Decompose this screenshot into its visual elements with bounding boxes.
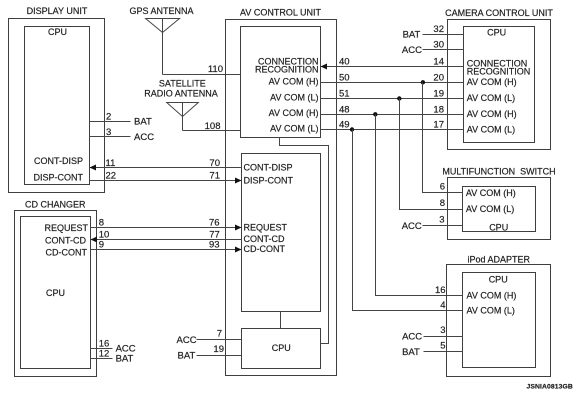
- svg-text:ACC: ACC: [177, 335, 197, 346]
- svg-text:AV COM (L): AV COM (L): [467, 93, 515, 103]
- svg-text:4: 4: [440, 300, 445, 311]
- camera CPU box: [464, 27, 535, 143]
- svg-text:AV COM (L): AV COM (L): [467, 125, 515, 135]
- svg-text:AV COM (H): AV COM (H): [269, 76, 319, 86]
- svg-text:BAT: BAT: [116, 353, 134, 364]
- wire GPS pin 110: [163, 64, 241, 75]
- svg-text:ACC: ACC: [134, 132, 154, 143]
- svg-text:RECOGNITION: RECOGNITION: [467, 66, 531, 76]
- svg-text:SATELLITE: SATELLITE: [159, 79, 206, 89]
- svg-text:DISP-CONT: DISP-CONT: [34, 173, 84, 183]
- svg-text:RECOGNITION: RECOGNITION: [255, 65, 319, 75]
- satellite radio antenna: [144, 79, 218, 131]
- wire 40 to 14: [321, 57, 464, 70]
- svg-text:76: 76: [209, 218, 220, 229]
- wire AV COM H 50 to 20: [321, 72, 464, 83]
- svg-text:110: 110: [208, 64, 223, 75]
- junction dot on 48: [373, 112, 377, 116]
- svg-text:AV COM (L): AV COM (L): [270, 123, 318, 133]
- svg-text:3: 3: [439, 214, 444, 225]
- svg-text:20: 20: [433, 72, 444, 83]
- svg-text:6: 6: [440, 182, 445, 193]
- svg-text:JSNIA0813GB: JSNIA0813GB: [527, 384, 573, 391]
- svg-text:40: 40: [339, 57, 350, 68]
- svg-text:22: 22: [106, 171, 117, 182]
- wire DISP-CONT pin 22 to 71: [90, 171, 242, 184]
- iPod CPU box: [463, 273, 536, 368]
- svg-text:12: 12: [99, 348, 110, 359]
- svg-text:19: 19: [213, 344, 224, 355]
- svg-text:CD-CONT: CD-CONT: [46, 247, 88, 257]
- svg-text:CONT-DISP: CONT-DISP: [34, 156, 83, 166]
- svg-text:3: 3: [106, 127, 111, 138]
- svg-text:2: 2: [106, 111, 111, 122]
- junction dot on 51: [397, 96, 401, 100]
- svg-text:BAT: BAT: [134, 117, 152, 128]
- svg-text:3: 3: [440, 325, 445, 336]
- wire REQUEST pin 8 to 76: [91, 218, 242, 231]
- svg-text:CD-CONT: CD-CONT: [244, 244, 286, 254]
- svg-text:17: 17: [433, 120, 444, 131]
- wire camera BAT pin 32: [403, 24, 464, 41]
- svg-text:7: 7: [217, 328, 222, 339]
- svg-text:MULTIFUNCTION SWITCH: MULTIFUNCTION SWITCH: [442, 166, 555, 176]
- svg-text:93: 93: [209, 239, 220, 250]
- svg-text:30: 30: [433, 40, 444, 51]
- svg-text:DISPLAY UNIT: DISPLAY UNIT: [27, 6, 88, 16]
- svg-text:8: 8: [99, 218, 104, 229]
- wire iPod BAT pin 5: [402, 340, 462, 358]
- svg-text:CPU: CPU: [48, 27, 67, 37]
- svg-text:AV COM (H): AV COM (H): [269, 108, 319, 118]
- wire 49 to iPod 4: [353, 130, 463, 312]
- svg-text:CPU: CPU: [489, 222, 508, 232]
- svg-text:GPS ANTENNA: GPS ANTENNA: [129, 6, 193, 16]
- wire 50 to multifunction 6: [423, 83, 463, 193]
- wire CONT-DISP pin 11 to 70: [90, 158, 242, 171]
- svg-text:iPod ADAPTER: iPod ADAPTER: [468, 254, 531, 264]
- wire AV COM H 48 to 18: [321, 104, 464, 115]
- svg-text:BAT: BAT: [178, 351, 196, 362]
- svg-text:108: 108: [205, 121, 221, 132]
- svg-text:DISP-CONT: DISP-CONT: [244, 176, 294, 186]
- svg-text:CONT-CD: CONT-CD: [244, 234, 285, 244]
- svg-text:51: 51: [339, 89, 350, 100]
- svg-text:CPU: CPU: [489, 274, 508, 284]
- svg-text:49: 49: [339, 120, 350, 131]
- svg-text:5: 5: [440, 340, 445, 351]
- wire CD ACC pin 16: [91, 339, 136, 355]
- wire AV ACC pin 7: [177, 328, 242, 346]
- svg-text:AV COM (H): AV COM (H): [467, 109, 517, 119]
- wire 48 to iPod 16: [376, 115, 463, 297]
- wire CD-CONT pin 9 to 93: [91, 239, 242, 252]
- svg-text:71: 71: [209, 171, 220, 182]
- wire ACC pin 3: [90, 127, 155, 143]
- svg-text:CONT-DISP: CONT-DISP: [244, 163, 293, 173]
- wire 51 to multifunction 8: [400, 99, 463, 210]
- multifunction switch outer box: [448, 178, 551, 240]
- wire iPod ACC pin 3: [402, 325, 462, 343]
- wire AV COM L 49 to 17: [321, 120, 464, 131]
- wire satellite pin 108: [183, 121, 241, 132]
- svg-text:AV COM (H): AV COM (H): [466, 188, 516, 198]
- wire BAT pin 2: [90, 111, 152, 127]
- svg-text:ACC: ACC: [402, 332, 422, 343]
- svg-text:ACC: ACC: [402, 45, 422, 56]
- AV CPU box: [242, 329, 321, 369]
- svg-text:ACC: ACC: [402, 221, 422, 232]
- CD changer CPU box: [21, 217, 91, 369]
- wire camera ACC pin 30: [402, 40, 464, 57]
- svg-text:AV COM (L): AV COM (L): [467, 305, 515, 315]
- wire AV BAT pin 19: [178, 344, 242, 362]
- svg-text:70: 70: [209, 158, 220, 169]
- svg-text:AV CONTROL UNIT: AV CONTROL UNIT: [240, 7, 322, 17]
- wire interface box to CPU: [280, 312, 282, 329]
- svg-text:AV COM (H): AV COM (H): [467, 290, 517, 300]
- wire CONT-CD pin 10 to 77: [91, 229, 242, 242]
- svg-text:REQUEST: REQUEST: [44, 223, 88, 233]
- svg-text:CPU: CPU: [487, 28, 506, 38]
- wire multifunction ACC pin 3: [402, 214, 463, 232]
- svg-text:50: 50: [339, 72, 350, 83]
- iPod adapter outer box: [447, 265, 551, 377]
- svg-text:8: 8: [440, 198, 445, 209]
- svg-text:16: 16: [435, 285, 446, 296]
- AV control unit outer box: [226, 20, 337, 376]
- display unit CPU box: [25, 27, 90, 185]
- svg-text:CPU: CPU: [46, 288, 65, 298]
- svg-text:32: 32: [433, 24, 444, 35]
- junction dot on 50: [421, 80, 425, 84]
- display unit outer box: [9, 19, 105, 193]
- GPS antenna: [129, 6, 193, 75]
- svg-text:AV COM (H): AV COM (H): [467, 77, 517, 87]
- svg-text:CAMERA CONTROL UNIT: CAMERA CONTROL UNIT: [445, 8, 553, 18]
- svg-text:9: 9: [99, 239, 104, 250]
- svg-text:REQUEST: REQUEST: [244, 222, 288, 232]
- svg-text:CPU: CPU: [272, 343, 291, 353]
- junction dot on 49: [350, 127, 354, 131]
- camera control unit outer box: [448, 20, 551, 150]
- svg-text:18: 18: [433, 104, 444, 115]
- svg-text:CONT-CD: CONT-CD: [45, 235, 86, 245]
- svg-text:19: 19: [433, 89, 444, 100]
- multifunction inner box: [463, 187, 536, 232]
- svg-text:14: 14: [433, 57, 444, 68]
- svg-text:RADIO ANTENNA: RADIO ANTENNA: [144, 89, 218, 99]
- svg-text:CD CHANGER: CD CHANGER: [25, 199, 86, 209]
- wire AV COM L 51 to 19: [321, 89, 464, 100]
- svg-text:48: 48: [339, 104, 350, 115]
- svg-text:AV COM (L): AV COM (L): [466, 204, 514, 214]
- svg-text:BAT: BAT: [402, 347, 420, 358]
- CD changer outer box: [15, 211, 97, 377]
- wire CD BAT pin 12: [91, 348, 134, 364]
- AV connection recognition box: [241, 27, 321, 138]
- svg-text:AV COM (L): AV COM (L): [270, 93, 318, 103]
- wire connection box to CPU: [280, 138, 329, 344]
- svg-text:BAT: BAT: [403, 30, 421, 41]
- svg-text:11: 11: [106, 158, 116, 169]
- AV interface box: [242, 154, 321, 312]
